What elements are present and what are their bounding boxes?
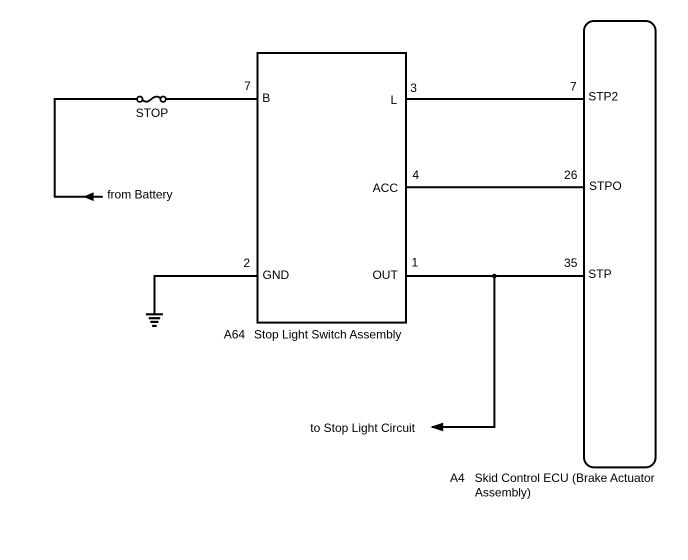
- svg-text:1: 1: [412, 256, 419, 270]
- svg-text:L: L: [391, 93, 398, 107]
- arrowhead from Battery: [83, 192, 93, 201]
- svg-text:ACC: ACC: [373, 181, 399, 195]
- svg-text:STPO: STPO: [589, 179, 622, 193]
- fuse STOP: [136, 97, 168, 120]
- svg-text:to Stop Light Circuit: to Stop Light Circuit: [310, 421, 415, 435]
- svg-text:2: 2: [243, 256, 250, 270]
- svg-text:A64: A64: [224, 328, 246, 342]
- svg-text:3: 3: [410, 81, 417, 95]
- svg-text:OUT: OUT: [372, 268, 398, 282]
- svg-text:from Battery: from Battery: [107, 187, 172, 201]
- svg-text:GND: GND: [263, 268, 290, 282]
- svg-text:Stop Light Switch Assembly: Stop Light Switch Assembly: [254, 328, 401, 342]
- svg-text:B: B: [262, 91, 270, 105]
- ECU box A4 Skid Control ECU (Brake Actuator Assembly): [584, 21, 656, 467]
- wire fuse to pin B: [166, 98, 257, 100]
- wire junction down to stop light circuit: [432, 275, 494, 427]
- svg-text:A4: A4: [450, 471, 465, 485]
- svg-text:7: 7: [570, 80, 577, 94]
- svg-text:STP: STP: [588, 267, 611, 281]
- svg-text:4: 4: [412, 168, 419, 182]
- svg-text:26: 26: [564, 168, 578, 182]
- svg-text:Assembly): Assembly): [475, 485, 531, 499]
- ground: [146, 314, 163, 326]
- wire ACC to STPO: [407, 186, 583, 188]
- arrowhead to Stop Light Circuit: [430, 423, 443, 432]
- junction dot on OUT wire: [492, 274, 497, 279]
- svg-text:7: 7: [244, 79, 251, 93]
- svg-text:35: 35: [564, 256, 578, 270]
- wire OUT to STP: [407, 275, 583, 277]
- svg-text:STOP: STOP: [136, 106, 168, 120]
- wire L to STP2: [407, 98, 583, 100]
- wire from battery vertical and horizontal to arrow: [55, 99, 103, 197]
- switch box A64 Stop Light Switch Assembly: [258, 53, 407, 323]
- svg-text:Skid Control ECU (Brake Actuat: Skid Control ECU (Brake Actuator: [475, 471, 655, 485]
- svg-text:STP2: STP2: [588, 90, 618, 104]
- wire battery to fuse: [54, 98, 138, 100]
- wire GND to pin 2 with ground drop: [155, 276, 257, 314]
